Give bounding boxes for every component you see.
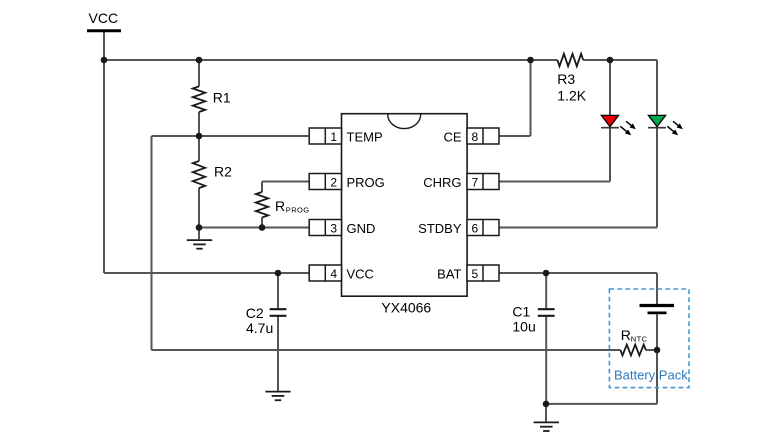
svg-text:10u: 10u	[512, 319, 535, 335]
svg-text:C2: C2	[246, 305, 264, 321]
svg-text:CHRG: CHRG	[423, 175, 461, 190]
svg-text:PROG: PROG	[286, 206, 310, 215]
svg-text:R1: R1	[213, 90, 231, 106]
svg-text:6: 6	[472, 222, 479, 236]
svg-text:R: R	[275, 198, 285, 214]
svg-text:STDBY: STDBY	[418, 221, 462, 236]
svg-text:BAT: BAT	[437, 267, 461, 282]
svg-text:VCC: VCC	[89, 10, 119, 26]
svg-text:3: 3	[330, 222, 337, 236]
svg-text:5: 5	[472, 267, 479, 281]
svg-text:Battery Pack: Battery Pack	[614, 368, 688, 383]
svg-text:CE: CE	[443, 130, 461, 145]
svg-text:R2: R2	[214, 163, 232, 179]
svg-text:4.7u: 4.7u	[246, 320, 273, 336]
svg-text:NTC: NTC	[631, 334, 648, 343]
svg-text:7: 7	[472, 176, 479, 190]
svg-text:VCC: VCC	[347, 267, 374, 282]
svg-text:R: R	[621, 327, 631, 343]
svg-text:4: 4	[330, 267, 337, 281]
svg-text:R3: R3	[557, 71, 575, 87]
svg-text:1.2K: 1.2K	[557, 87, 586, 103]
svg-text:TEMP: TEMP	[347, 130, 383, 145]
svg-text:1: 1	[330, 130, 337, 144]
svg-text:GND: GND	[347, 221, 376, 236]
svg-text:2: 2	[330, 176, 337, 190]
svg-text:C1: C1	[512, 303, 530, 319]
svg-text:8: 8	[472, 130, 479, 144]
svg-text:YX4066: YX4066	[381, 299, 431, 315]
svg-text:PROG: PROG	[347, 175, 385, 190]
